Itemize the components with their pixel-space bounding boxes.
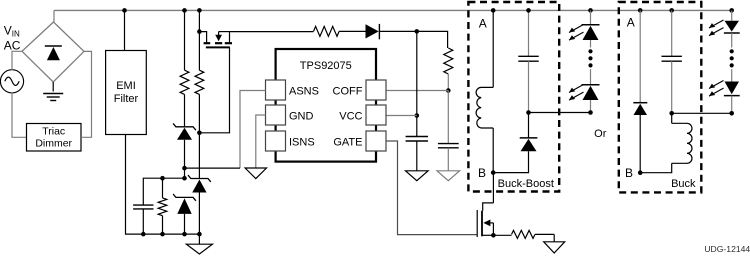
capacitor buck-boost output <box>518 8 538 115</box>
wire buck LED return to inductor <box>672 112 732 114</box>
wire AC source bottom to Triac Dimmer <box>12 93 27 138</box>
ground COFF cap <box>437 171 460 181</box>
svg-text:Buck-Boost: Buck-Boost <box>498 178 554 190</box>
svg-text:A: A <box>627 16 635 30</box>
svg-text:ASNS: ASNS <box>289 86 319 98</box>
svg-text:Dimmer: Dimmer <box>35 138 72 150</box>
svg-text:A: A <box>479 16 487 30</box>
ground at rail end <box>186 234 212 254</box>
svg-text:Or: Or <box>594 128 607 140</box>
svg-text:AC: AC <box>4 38 21 52</box>
label Or <box>594 128 607 140</box>
capacitor VCC <box>406 137 428 171</box>
earth ground at bridge bottom <box>43 82 63 101</box>
ground sense resistor <box>544 234 565 253</box>
resistor current sense <box>493 230 554 238</box>
EMI filter top wire and junction <box>122 8 127 50</box>
wire buck-boost output to LED string <box>529 112 591 114</box>
node A buck-boost <box>491 8 496 13</box>
wire GATE pin to power MOSFET gate <box>386 141 477 235</box>
IC U1 TPS92075 <box>276 49 376 162</box>
wire Triac Dimmer to bridge right corner <box>81 51 92 137</box>
wire ASNS pin to divider <box>185 91 266 169</box>
depletion MOSFET Q1 (linear regulator) <box>199 32 232 48</box>
LED string buck-boost <box>569 8 600 115</box>
pin ASNS <box>266 80 319 100</box>
wire: rectified AC top bus <box>54 9 732 11</box>
wire Q1 drain to series resistor <box>230 31 314 33</box>
svg-text:B: B <box>478 166 486 180</box>
power MOSFET Q2 <box>477 203 496 238</box>
svg-text:B: B <box>625 166 633 180</box>
svg-text:V: V <box>4 23 12 37</box>
svg-text:VCC: VCC <box>339 111 362 123</box>
svg-text:Filter: Filter <box>114 93 139 105</box>
svg-text:Triac: Triac <box>42 126 65 138</box>
Triac Dimmer box <box>27 124 82 152</box>
node B buck-boost <box>491 170 496 175</box>
pin ISNS <box>266 131 315 151</box>
diode buck-boost <box>493 113 537 173</box>
svg-text:GATE: GATE <box>333 137 362 149</box>
wire AC source top to bridge left corner <box>12 51 22 70</box>
pin GND <box>266 105 314 125</box>
Buck-Boost dashed box <box>468 2 559 192</box>
ground VCC cap <box>406 171 429 181</box>
capacitor buck output <box>662 8 682 116</box>
wire COFF pin <box>386 90 448 92</box>
zener diode Z1 <box>173 123 196 180</box>
resistor divider upper left (to ASNS) <box>180 8 189 127</box>
LED string buck <box>709 8 740 116</box>
svg-text:ISNS: ISNS <box>289 137 315 149</box>
wire VCC pin <box>386 115 417 117</box>
diode buck freewheel <box>633 8 647 173</box>
ground IC GND <box>245 168 266 179</box>
inductor buck <box>640 113 692 172</box>
pin VCC <box>339 105 386 125</box>
resistor COFF timing <box>444 48 453 93</box>
svg-text:IN: IN <box>12 30 20 39</box>
resistor bias column <box>195 8 204 178</box>
wire diode to COFF resistor <box>379 29 447 48</box>
svg-text:GND: GND <box>289 111 314 123</box>
resistor VCC series <box>314 26 340 36</box>
wire gate of Q1 to bias node <box>199 47 229 132</box>
label VIN AC <box>4 23 21 52</box>
zener diode Z3 <box>188 175 211 236</box>
zener diode Z2 <box>173 194 196 236</box>
svg-text:TPS92075: TPS92075 <box>300 60 352 72</box>
bridge rectifier diamond <box>22 22 84 82</box>
inductor buck-boost <box>476 10 493 172</box>
resistor (damper) bottom left <box>158 176 167 237</box>
EMI Filter box <box>106 51 147 135</box>
pin GATE <box>333 131 386 151</box>
capacitor (damper) bottom left <box>133 178 184 236</box>
label UDG-12144 <box>704 244 750 254</box>
svg-text:Buck: Buck <box>671 178 696 190</box>
AC source V1 <box>0 70 23 93</box>
wire bridge top corner to bus <box>53 10 55 22</box>
wire drain to B node <box>492 173 494 203</box>
node B buck <box>638 170 643 175</box>
wire resistor to diode <box>339 30 365 32</box>
svg-text:UDG-12144: UDG-12144 <box>704 244 750 254</box>
pin COFF <box>333 80 386 100</box>
wire GND pin to ground <box>256 115 266 168</box>
capacitor COFF <box>438 91 459 171</box>
svg-text:COFF: COFF <box>333 86 363 98</box>
ground rail bottom left <box>143 233 199 235</box>
wire VCC rail down <box>415 31 420 136</box>
bridge rectifier diode symbol <box>45 46 62 60</box>
wire EMI filter bottom to ground rail <box>126 135 144 235</box>
Buck dashed box <box>619 2 702 192</box>
svg-text:EMI: EMI <box>116 80 136 92</box>
diode VCC series <box>366 24 380 39</box>
